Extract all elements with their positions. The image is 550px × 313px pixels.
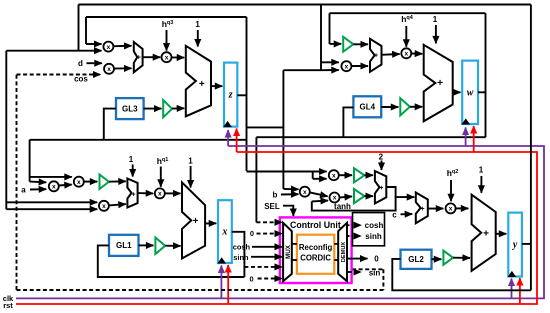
wire: branch into Ma1 upper (30, 181, 47, 184)
wire: B8 to mux2 lower (364, 195, 373, 197)
adder A9 (375, 171, 386, 204)
svg-text:GL3: GL3 (122, 104, 138, 113)
wire: purple clk riser into x (220, 266, 222, 299)
wire: Mb out to Mtanh (310, 193, 327, 197)
GL1 box (109, 235, 139, 256)
wire: dashed sin/cos return rail (17, 289, 384, 291)
svg-text:cosh: cosh (365, 221, 384, 230)
register y (508, 213, 522, 277)
wire: h^q2 down into Mh2 (450, 180, 452, 201)
wire: purple clk riser into y (511, 279, 513, 299)
svg-text:1: 1 (433, 15, 438, 24)
wire: 1 down into A7 (132, 165, 134, 177)
wire: jog to Mu lower (312, 172, 314, 179)
wire: A2 out to z register (211, 85, 222, 87)
svg-text:GL4: GL4 (360, 103, 376, 112)
wire: purple clk bottom rail (16, 146, 544, 298)
svg-text:x: x (77, 179, 81, 186)
wire: into Ma3 lower (5, 208, 7, 210)
buffer triangle B8 (354, 189, 364, 203)
wire: z net vertical x=246.5 (246, 17, 248, 171)
multiplier M5 (401, 48, 411, 58)
wire: A7 out to Mh1 (138, 192, 154, 194)
svg-text:CORDIC: CORDIC (300, 253, 331, 262)
wire: branch into Ma2 upper (30, 176, 72, 178)
clock wedge w (462, 119, 469, 124)
wire: A1 out to M3 (143, 56, 161, 58)
mux trapezoid (283, 223, 292, 281)
wire: top feedback line y=4.5 (y net) (79, 4, 531, 6)
svg-text:sinh: sinh (365, 232, 382, 241)
wire: GL3 input riser (104, 109, 116, 139)
multiplier Mu (329, 170, 339, 180)
register w (462, 61, 478, 124)
svg-text:2: 2 (379, 153, 384, 162)
wire: Ac out to Mh2 (428, 208, 444, 210)
wire: buffer B3 to A2 lower (172, 107, 184, 109)
wire: w net bottom y=136 (256, 136, 485, 138)
svg-text:x: x (107, 44, 111, 51)
adder A10 (y) (472, 195, 496, 271)
multiplier M1 (z loop) (103, 42, 113, 52)
svg-text:GL1: GL1 (116, 241, 132, 250)
wire: dashed left riser to cos (16, 75, 18, 291)
wire: z cross vertical x=283.4 (282, 70, 284, 189)
wire: SEL into control unit (283, 206, 293, 209)
wire: GL4 input riser from w net (343, 107, 353, 137)
GL2 box (401, 250, 432, 269)
wire: mux input1 dashed (w net) (256, 221, 282, 223)
wire: mux input2 dashed 0 (257, 233, 283, 235)
wire: Mtanh out to buffer B8 (340, 196, 352, 197)
svg-text:y: y (512, 240, 518, 251)
svg-text:+: + (193, 216, 199, 227)
wire: dashed sin spur (352, 268, 383, 270)
wire: Bg to A10 lower (453, 257, 470, 259)
wire: mux to cordic links (292, 243, 297, 245)
wire: demux out2 to sinh (348, 235, 354, 237)
wire: red rst riser into y (519, 278, 521, 304)
wire: B5 to A6 lower (410, 106, 422, 108)
wire: Mu out to buffer B7 (339, 174, 352, 176)
wire: z branch down-left x=29.6 (29, 140, 31, 182)
svg-text:x: x (449, 206, 453, 213)
multiplier Mtanh (330, 193, 340, 203)
svg-text:GL2: GL2 (408, 255, 424, 264)
wire: mux input6 dashed 0 (258, 278, 282, 280)
wire: into M4 upper (321, 61, 339, 63)
svg-text:Control Unit: Control Unit (290, 220, 341, 230)
svg-text:tanh: tanh (334, 202, 351, 211)
wire: y net drop x=321 (to M4) (320, 5, 322, 71)
wire: dashed right riser from sin (382, 269, 384, 290)
svg-text:1: 1 (129, 155, 134, 164)
wire: A8 out to x register (205, 222, 216, 224)
GL4 box (353, 96, 381, 117)
wire: GL4 out to buffer (381, 106, 398, 108)
wire: 1 down into A2 (197, 30, 199, 47)
svg-text:x: x (221, 227, 227, 238)
wire: A9 out step to Ac (386, 187, 395, 197)
wire: 1 down into A10 (480, 176, 482, 193)
multiplier Ma1 (49, 181, 59, 191)
wire: red rst bottom rail (16, 152, 537, 304)
register x (218, 200, 232, 263)
svg-text:sinh: sinh (233, 253, 249, 262)
multiplier Mh2 (446, 203, 456, 213)
svg-text:c: c (392, 210, 397, 219)
buffer triangle B3 (163, 100, 172, 117)
wire: c into Ac (401, 213, 413, 215)
svg-text:+: + (420, 206, 424, 213)
wire: w net vertical x=485.5 (485, 13, 487, 137)
wire: A6 out to w register (453, 91, 461, 93)
wire: M3 out to A2 (172, 56, 185, 58)
wire: x output (232, 232, 245, 277)
wire: GL2 input loop from y net (392, 259, 531, 290)
adder A2 (z) (186, 46, 211, 117)
buffer triangle Bg (443, 251, 453, 265)
svg-text:+: + (437, 78, 443, 89)
output box cosh/sinh (353, 213, 385, 246)
wire: purple clk riser into w (465, 128, 467, 147)
wire: h^q1 down into Mh1 (160, 167, 162, 187)
wire: long input into M1 lower y=50.7 (6, 50, 101, 52)
multiplier Ma2 (74, 177, 84, 187)
wire: cordic to demux links (334, 243, 338, 245)
wire: z cross branch y=127.4 (247, 126, 284, 128)
multiplier Mb (300, 187, 310, 197)
svg-text:x: x (332, 172, 336, 179)
adder A1 (134, 42, 143, 72)
svg-text:0: 0 (249, 275, 253, 284)
register z (224, 63, 237, 127)
wire: far-left vertical x=6.3 (5, 51, 7, 210)
buffer triangle B7 (354, 168, 364, 182)
wire: purple clk riser into z (227, 130, 229, 146)
wire: B7 to mux2 upper (364, 174, 373, 176)
svg-text:x: x (303, 189, 307, 196)
svg-text:x: x (333, 195, 337, 202)
wire: GL1 out to buffer B4 (139, 244, 154, 246)
wire: z output (237, 94, 246, 96)
svg-text:d: d (78, 59, 83, 68)
reconfig CORDIC box (297, 235, 334, 274)
clock wedge z (224, 122, 231, 127)
wire: M5 out to A6 (412, 53, 423, 55)
svg-text:+: + (483, 229, 489, 240)
wire: b into Mb (281, 193, 299, 195)
wire: tanh feedback hairpin (312, 196, 396, 211)
wire: B4 to A8 lower (165, 245, 180, 247)
svg-text:x: x (102, 203, 106, 210)
adder A6 (w) (424, 45, 453, 122)
wire: w loop drop x=329.5 to buffer (329, 13, 331, 44)
clock wedge y (509, 272, 516, 277)
svg-text:+: + (199, 79, 205, 90)
wire: GL2 out to buffer Bg (432, 258, 442, 260)
wire: 1 down into A6 (435, 25, 437, 43)
svg-text:rst: rst (3, 301, 13, 310)
svg-text:sin: sin (369, 268, 381, 277)
wire: h^q4 down into M5 (405, 26, 407, 47)
svg-text:DEMUX: DEMUX (341, 242, 347, 262)
svg-text:Reconfig: Reconfig (299, 243, 333, 252)
multiplier M4 (341, 61, 351, 71)
wire: into Ma3 upper (6, 201, 97, 203)
svg-text:+: + (374, 53, 378, 60)
wire: w self-loop top y=13.2 (330, 12, 486, 14)
buffer triangle B5 (400, 98, 410, 115)
wire: y net right vertical x=530.9 (530, 5, 532, 291)
wire: long y=70.2 into M4 lower (283, 69, 321, 71)
adder A7 (127, 179, 137, 208)
buffer triangle B1 (100, 175, 109, 190)
wire: red rst riser into z (236, 129, 238, 153)
svg-text:z: z (228, 90, 233, 101)
svg-text:w: w (467, 87, 474, 98)
control unit box (280, 217, 352, 283)
wire: A5 out to M5 (382, 53, 400, 56)
wire: z to Mu upper (247, 171, 327, 173)
wire: demux out3 to 0 (348, 258, 368, 260)
wire: Mh2 out to A10 (456, 207, 469, 209)
wire: GL3 out to buffer (144, 108, 162, 110)
wire: red rst riser into w (473, 126, 475, 152)
adder A5 (370, 39, 382, 72)
wire: 1 down into A8 (190, 166, 192, 188)
wire: mux input4 sinh (251, 256, 282, 258)
svg-text:x: x (345, 63, 349, 70)
wire: M4 out to adder A5 (352, 65, 368, 67)
wire: B6 to adder A5 (353, 43, 368, 45)
wire: Mh1 out to A8 (165, 192, 181, 194)
svg-text:cos: cos (74, 75, 88, 84)
svg-text:+: + (137, 54, 141, 61)
wire: B1 to adder A7 upper (109, 180, 126, 182)
multiplier Ma3 (99, 201, 109, 211)
multiplier M2 (d x cos) (104, 64, 114, 74)
svg-text:b: b (273, 191, 278, 200)
svg-text:1: 1 (188, 157, 193, 166)
wire: red rst riser into x (227, 265, 229, 304)
wire: cos dashed input into M2 (17, 74, 101, 76)
svg-text:a: a (21, 185, 26, 194)
wire: GL1 input loop from x net (98, 245, 245, 277)
buffer triangle B6 (343, 37, 353, 52)
wire: y output (522, 243, 531, 245)
clock wedge x (218, 258, 225, 263)
svg-text:+: + (379, 185, 383, 192)
wire: a into Ma1 (30, 188, 46, 190)
wire: Ma3 out to A7 lower (109, 204, 126, 205)
svg-text:cosh: cosh (233, 243, 251, 252)
multiplier M3 (x h^q3) (162, 52, 172, 62)
wire: h^q3 down into M3 (166, 30, 168, 51)
svg-text:x: x (107, 66, 111, 73)
svg-text:+: + (132, 191, 136, 198)
svg-text:1: 1 (195, 20, 200, 29)
svg-text:1: 1 (479, 166, 484, 175)
wire: z left branch y=139 to GL3/bottom-left (30, 139, 246, 141)
buffer triangle B4 (155, 238, 165, 255)
multiplier Mh1 (155, 188, 165, 198)
svg-text:SEL: SEL (264, 202, 280, 211)
wire: M2 out to adder A1 (114, 67, 131, 69)
wire: z self-loop drop x=88 into M1 upper (85, 17, 87, 44)
svg-text:x: x (404, 51, 408, 58)
adder Ac (416, 193, 428, 224)
wire: M1 out to adder A1 (114, 45, 132, 47)
svg-text:MUX: MUX (285, 244, 292, 259)
adder A8 (x) (182, 182, 205, 258)
demux trapezoid (338, 223, 347, 281)
svg-text:0: 0 (250, 229, 254, 238)
wire: z self-loop top y=17 (86, 16, 247, 18)
GL3 box (116, 98, 144, 119)
wire: w output to right vertical (478, 91, 486, 93)
svg-text:x: x (52, 184, 56, 191)
wire: demux out1 to cosh (348, 224, 354, 226)
wire: vertical x=78.5 from top line down to y=50.7 (78, 5, 80, 51)
wire: 2 down into adder A9 (381, 161, 383, 171)
wire: A10 out to y register (496, 233, 507, 235)
wire: Ma2 out to buffer B1 (84, 181, 97, 183)
wire: demux out4 dashed to sin (348, 271, 355, 273)
wire: Ma1 out to Ma2 (59, 184, 72, 187)
wire: z to Mb upper (283, 188, 298, 190)
svg-text:x: x (158, 191, 162, 198)
wire: w net drop x=256.4 to MUX in1 (255, 137, 257, 222)
svg-text:x: x (165, 54, 169, 61)
wire: mux input5 dashed (244, 266, 282, 268)
svg-text:0: 0 (374, 255, 379, 264)
wire: mux input3 cosh (252, 246, 282, 248)
wire: d into M2 (87, 62, 102, 64)
